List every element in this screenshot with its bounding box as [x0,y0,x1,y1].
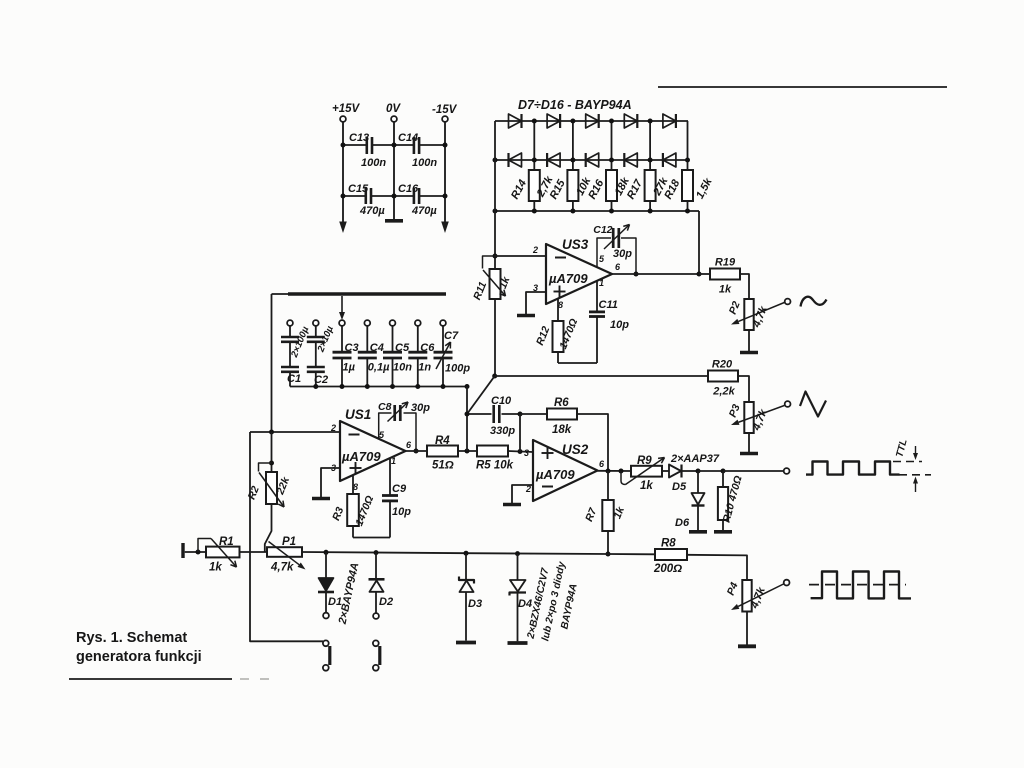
ground R10 [714,530,732,534]
wire array column 4 [649,121,651,160]
svg-text:4,7k: 4,7k [270,562,294,574]
node array bottom 1 [532,209,537,214]
svg-text:R6: R6 [554,397,569,409]
wire R19 stub [699,273,710,275]
svg-text:1k: 1k [719,284,732,296]
ground P4 [738,644,756,648]
svg-text:10p: 10p [392,506,411,518]
terminal C5 [390,320,396,326]
node -15V/C14 [443,143,448,148]
node -15V/C16 [443,194,448,199]
node +15V/C13 [341,143,346,148]
terminal 0V [391,116,397,122]
sine wave symbol [801,297,827,307]
svg-text:1n: 1n [418,362,431,374]
wire P4 to ground [746,612,748,645]
wire diode array second row [495,159,688,161]
node cap bus 3 [340,384,345,389]
svg-text:+15V: +15V [332,103,361,115]
svg-text:Rys. 1. Schemat: Rys. 1. Schemat [76,630,187,646]
wire to TTL output terminal [723,470,784,472]
capacitor C15 470u [343,195,365,197]
svg-text:C15: C15 [348,183,369,195]
svg-text:R8: R8 [661,538,676,550]
svg-text:D3: D3 [468,598,482,610]
arrow TTL lower [915,484,917,493]
diode D3 zener [464,551,469,556]
capacitor C13 100n [343,144,366,146]
diode D1 BAYP94A [324,550,329,555]
svg-text:C4: C4 [370,342,384,354]
terminal triangle output [785,401,791,407]
wire R6 to US2 output [577,414,608,469]
resistor R5 10k [477,446,508,457]
terminal C3 [339,320,345,326]
svg-text:generatora funkcji: generatora funkcji [76,649,202,665]
svg-text:C9: C9 [392,483,407,495]
svg-text:51Ω: 51Ω [432,460,454,472]
svg-text:200Ω: 200Ω [653,563,682,575]
wire R11 to lower bus [494,299,496,376]
wire bus down to R19 node [698,211,700,274]
capacitor C12 30p variable [597,238,611,268]
node R5/US2 [518,449,523,454]
capacitor C11 10p [596,281,598,311]
svg-text:R1: R1 [219,536,234,548]
capacitor C16 470u [394,195,413,197]
svg-text:US2: US2 [562,442,589,457]
svg-text:100p: 100p [445,363,470,375]
resistor R4 51ohm [427,446,458,457]
svg-text:P1: P1 [282,536,296,548]
terminal input [181,543,184,558]
wire array column 1 [533,121,535,160]
wire R19 to P2 [740,274,749,299]
jumper link 1 [328,646,331,665]
svg-text:470µ: 470µ [359,205,385,217]
node US2 output/R6/R7 [606,469,611,474]
ground P3 [740,452,758,456]
node R11 bottom / R20 bus [492,374,497,379]
dashed zero line [809,584,906,586]
wire C10 node down [466,414,468,451]
wire R2 to bottom bus [265,504,272,552]
wire array column 3 [611,121,613,160]
node C10 left [465,412,470,417]
diode D5 AAP37 [669,465,681,478]
resistor R2 22k variable [271,432,273,472]
terminal square output [784,580,790,586]
page rule bottom left [69,678,232,680]
svg-text:0,1µ: 0,1µ [368,362,390,374]
potentiometer P2 4.7k [744,299,753,330]
terminal TTL square output [784,468,790,474]
svg-text:C3: C3 [345,342,359,354]
node array top 4 [648,119,653,124]
potentiometer P4 4.7k [742,580,751,612]
wire input to R1 [185,551,206,553]
wire US3 output to R19 [612,273,699,275]
wire array column 2 [572,121,574,160]
svg-text:330p: 330p [490,425,515,437]
resistor R20 2.2k [708,371,738,382]
jumper contact 1 bottom [323,665,329,671]
resistor R8 200ohm [655,549,687,560]
node array mid 3 [609,158,614,163]
node 0V/C15/C16 [392,194,397,199]
capacitor C6 1n [417,326,419,351]
wire C10 node to R6 [520,413,547,415]
svg-text:C7: C7 [444,330,459,342]
node array mid 1 [532,158,537,163]
wire P3 to ground [748,433,750,452]
node +15V/C15 [341,194,346,199]
diode D4 zener [515,551,520,556]
svg-text:C6: C6 [420,342,435,354]
op-amp US1 uA709 [340,421,406,481]
node US3 inverting input [493,254,498,259]
node cap bus 6 [415,384,420,389]
svg-text:US1: US1 [345,407,371,422]
diode D12 [509,153,522,167]
TTL level dashed lines [893,461,922,463]
node array mid 2 [570,158,575,163]
capacitor C10 330p [467,413,492,415]
diode D15 [624,153,637,167]
square wave symbol bipolar [811,572,911,599]
svg-text:US3: US3 [562,237,589,252]
resistor R16 18k [611,160,613,170]
resistor R3 1470ohm [352,476,354,495]
capacitor C7 100p [442,326,444,351]
svg-text:D7÷D16 - BAYP94A: D7÷D16 - BAYP94A [518,98,632,112]
svg-text:C11: C11 [599,299,618,311]
resistor R17 27k [649,160,651,170]
resistor R19 1k [710,269,740,280]
arrow +15V down [339,222,347,234]
wire US1 pin3 to ground [321,468,340,497]
wire US3 pin3 to ground [526,292,546,314]
terminal sine output [785,299,791,305]
node cap bus 4 [365,384,370,389]
svg-text:µA709: µA709 [548,271,588,286]
svg-text:1: 1 [599,278,604,288]
terminal C2 [313,320,319,326]
diode D13 [547,153,560,167]
resistor R10 470ohm [722,471,724,487]
capacitor C2 2x10u [315,326,317,336]
jumper link 2 [378,646,381,665]
terminal C1 [287,320,293,326]
capacitor C9 10p [389,458,391,495]
svg-text:100n: 100n [361,157,386,169]
resistor R12 1470ohm [557,298,559,321]
wire US3 pin2 input [495,255,546,257]
resistor R1 1k variable [206,547,240,558]
wire 0V rail [393,122,395,219]
svg-text:C1: C1 [287,373,301,385]
diode D10 [624,114,637,128]
node R10 top [721,469,726,474]
wire R5 to US2 pin3 [508,451,533,452]
svg-text:470µ: 470µ [411,205,437,217]
diode D8 [547,114,560,128]
wire US2 output [598,470,632,472]
ground 0V [385,219,403,223]
svg-text:3: 3 [524,448,529,458]
capacitor C5 10n [392,326,394,351]
svg-text:R20: R20 [712,359,733,371]
terminal C4 [364,320,370,326]
node array bottom 0 [493,209,498,214]
diode D9 [586,114,599,128]
terminal +15V [340,116,346,122]
diode D7 [509,114,522,128]
wire array left bus down to R11 [494,121,496,269]
svg-text:R5 10k: R5 10k [476,460,514,472]
node array bottom 5 [685,209,690,214]
ground D4 [508,641,528,645]
node US1 output [414,449,419,454]
capacitor C4 0,1µ [366,326,368,351]
resistor R15 10k [572,160,574,170]
op-amp US3 uA709 [546,244,612,304]
TTL square wave symbol [806,462,900,475]
potentiometer P3 4.7k [744,402,753,433]
wire cap bus down to C10 [466,387,468,415]
svg-text:1k: 1k [209,562,222,574]
node US3 output [634,272,639,277]
node input [196,550,201,555]
svg-text:2×AAP37: 2×AAP37 [670,453,720,465]
svg-text:2,2k: 2,2k [712,386,735,398]
svg-text:C10: C10 [491,395,512,407]
node cap bus 7 [441,384,446,389]
terminal -15V [442,116,448,122]
svg-text:1k: 1k [640,480,653,492]
wire R11 bus to R20 [495,375,708,377]
svg-text:D6: D6 [675,517,690,529]
wire R3 to C9 [353,537,390,539]
wire array right bus [687,121,689,160]
arrow -15V down [441,222,449,234]
diode D16 [663,153,676,167]
terminal C6 [415,320,421,326]
capacitor C8 30p variable [379,413,392,439]
wire switch return bus [250,432,323,641]
svg-text:C5: C5 [395,342,410,354]
node array bottom 3 [609,209,614,214]
resistor R11 1k variable [490,269,501,299]
svg-text:10n: 10n [393,362,412,374]
node array mid 4 [648,158,653,163]
resistor R18 1,5k [687,160,689,170]
svg-text:D5: D5 [672,481,687,493]
svg-text:10p: 10p [610,319,629,331]
wire -15V rail [444,122,446,224]
node R19 input [697,272,702,277]
potentiometer P1 4.7k [267,547,302,557]
wire D5 node to R10 [698,470,723,472]
wire bus diagonal to C10 node [467,376,495,414]
svg-text:C8: C8 [378,401,392,413]
wire main bottom bus [302,552,655,554]
wire R4 to R5 [458,450,477,452]
svg-text:30p: 30p [613,248,632,260]
svg-text:R4: R4 [435,435,450,447]
svg-text:C12: C12 [593,224,612,236]
capacitor C3 1µ [341,326,343,351]
wire US1 pin2 input [250,431,340,433]
resistor R7 1k [607,471,609,500]
arrow selector to C3 [341,296,343,312]
wire capacitor bank bottom bus [290,386,467,388]
svg-text:R19: R19 [715,257,736,269]
svg-text:C14: C14 [398,132,418,144]
capacitor C14 100n [394,144,413,146]
wire US2 pin2 to ground [512,485,533,503]
node D5/D6 [696,469,701,474]
node array bottom 2 [570,209,575,214]
node R7 bottom [606,552,611,557]
node cap bus end [465,384,470,389]
resistor R6 18k [547,409,577,420]
svg-text:R9: R9 [637,455,652,467]
diode D14 [586,153,599,167]
svg-text:100n: 100n [412,157,437,169]
node cap bus 5 [390,384,395,389]
node array mid 5 [685,158,690,163]
svg-text:-15V: -15V [432,104,458,116]
svg-text:µA709: µA709 [341,449,381,464]
node C10 right [518,412,523,417]
ground US2 pin2 [503,503,521,507]
node cap bus 2 [313,384,318,389]
wire US1 output [406,450,428,452]
wire selector bus thick [272,293,291,295]
jumper contact 1 top [323,640,329,646]
svg-text:1µ: 1µ [343,362,356,374]
node R9 wiper [619,469,624,474]
wire diode array top row [495,120,688,122]
node array top 1 [532,119,537,124]
ground US1 pin3 [312,497,330,501]
wire left bus down to US1 pin2 [271,294,273,432]
jumper contact 2 bottom [373,665,379,671]
diode D11 [663,114,676,128]
triangle wave symbol [800,392,826,417]
svg-text:18k: 18k [552,424,572,436]
svg-text:30p: 30p [411,402,430,414]
wire R20 to P3 [738,376,749,402]
diode D6 [697,471,699,493]
node pin2/left bus [269,430,274,435]
svg-text:2: 2 [330,423,336,433]
svg-text:D2: D2 [379,596,393,608]
resistor R14 2,7k [533,160,535,170]
arrow C7 variable [436,342,451,369]
terminal C7 [440,320,446,326]
svg-text:µA709: µA709 [535,467,575,482]
ground US3 pin3 [517,314,535,318]
node array mid 0 [493,158,498,163]
ground D3 [456,641,476,645]
node array top 3 [609,119,614,124]
resistor R9 1k variable [631,466,662,477]
op-amp US2 uA709 [533,440,598,501]
svg-text:1: 1 [391,456,396,466]
wire R1 to P1 [240,551,268,553]
node 0V/C13/C14 [392,143,397,148]
svg-text:2: 2 [532,245,538,255]
wire C10 right down to pin3 [519,414,521,452]
arrow TTL upper [915,446,917,453]
wire +15V rail [342,122,344,224]
node R4/R5/C10 [465,449,470,454]
svg-text:0V: 0V [386,103,401,115]
ground D6 [689,530,707,534]
wire R12 to C11 bottom [558,362,597,364]
node array top 2 [570,119,575,124]
page rule top right [658,86,947,88]
diode D2 BAYP94A [374,550,379,555]
ground P2 [740,351,758,355]
node array bottom 4 [648,209,653,214]
svg-text:C13: C13 [349,132,369,144]
wire diode array bottom bus [495,210,699,212]
wire R9 to D5 [662,470,669,472]
svg-text:D4: D4 [518,598,532,610]
capacitor C1 2x100u [289,326,291,336]
svg-text:C16: C16 [398,183,419,195]
wire R8 to P4 [687,555,747,580]
jumper contact 2 top [373,640,379,646]
wire P2 to ground [748,330,750,351]
